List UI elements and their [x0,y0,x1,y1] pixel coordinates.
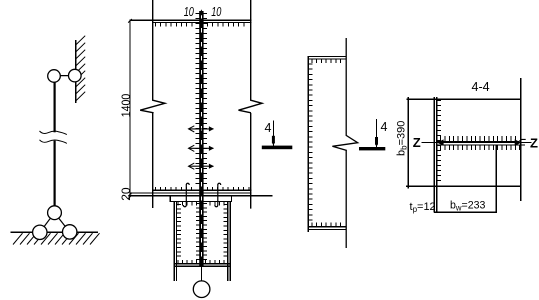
svg-text:10: 10 [184,5,194,19]
box left wall [174,202,176,282]
svg-text:Z: Z [530,135,538,150]
dimension line 1400/20 [129,21,131,195]
svg-text:20: 20 [119,187,133,201]
top plate lower line [152,21,252,23]
wall line (top support) [75,40,77,103]
support roller circle right [62,225,76,239]
side view top plate lines [308,57,347,59]
side view left edge weld ticks [309,64,313,220]
svg-text:bb=390: bb=390 [396,121,409,156]
pin circle on wall [69,69,82,82]
flange weld ticks above [441,136,516,141]
section left dim line [407,97,409,189]
section flange plate lines [437,141,525,145]
side view bottom plate lines [308,227,347,230]
side view right line with break [332,38,357,248]
section top line [406,98,521,100]
weld ticks right of splice plate [204,14,208,184]
load arrow 2 [189,147,213,149]
load arrow 3 [189,165,213,167]
weld ticks under stub plate [178,202,224,205]
Z-Z axis line [422,142,532,144]
pin circle at column top [48,70,61,83]
side view left edge [307,57,309,233]
box right wall [228,202,230,282]
column upper segment [53,82,55,132]
svg-text:4-4: 4-4 [472,80,490,94]
svg-text:Z: Z [413,135,421,150]
weld ticks right of splice plate lower box region [204,204,207,260]
weld ticks left of splice plate [196,14,200,184]
section marker 4 right [376,119,378,147]
load arrow 1 [189,128,213,130]
wall hatching [76,36,86,101]
box bottom plate lines [174,264,231,267]
base plate upper line [129,192,251,194]
dimension end ticks [128,19,132,199]
bw box right line [495,145,497,212]
side view bottom weld ticks [312,223,341,226]
weld ticks above base line [155,187,249,190]
stub plate outline [170,197,232,202]
web splice plate (vertical) [199,11,203,267]
svg-text:4: 4 [381,120,388,134]
flange weld ticks below [441,146,520,150]
splice plate dashed centerline [200,14,202,266]
flange right end jog [519,139,526,141]
base plate lower line [129,195,272,197]
section marker 4 left [272,121,274,147]
svg-text:10: 10 [211,5,221,19]
support roller circle left [33,225,47,239]
base weld tick line [153,189,252,191]
support pin circle top [48,206,62,220]
box left wall weld ticks [177,205,181,257]
box bottom weld ticks [178,260,224,263]
weld ticks under top plate [156,23,244,27]
ground hatching [13,233,100,244]
support link wires [40,213,70,233]
left flange line with break [140,0,165,208]
leader line to detail circle [200,267,202,282]
right flange line with break [239,0,263,209]
ground line [10,231,98,233]
side view top weld ticks [312,60,341,63]
section web plate weld ticks [437,101,441,181]
svg-text:bw=233: bw=233 [450,200,486,213]
section web plate lines [434,97,437,212]
break wave upper [40,131,67,135]
top hinge link wire [54,75,75,77]
flange right arrow [515,139,522,145]
splice plate top arrow tip [199,9,204,15]
svg-text:1400: 1400 [119,94,133,118]
top plate upper line [130,19,252,21]
flange left arrow [437,139,444,145]
break wave lower [40,140,67,144]
anchor bolt left [183,183,189,207]
bw box bottom line [434,211,497,213]
section bottom line [406,185,521,187]
box right wall weld ticks [223,205,227,257]
section right vertical line [520,78,522,201]
detail circle [193,281,210,298]
anchor bolt right [215,183,221,207]
svg-text:4: 4 [265,121,272,135]
weld ticks left of splice plate lower box region [196,204,199,260]
column lower segment [53,141,55,206]
